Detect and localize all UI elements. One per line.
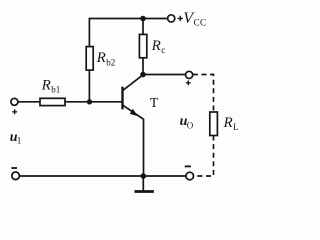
transistor T emitter arrow <box>130 109 138 116</box>
terminal input minus <box>12 172 20 180</box>
node collector supply junction <box>140 16 146 22</box>
polarity minus input <box>11 167 17 169</box>
wire Rb1 to base <box>65 101 122 103</box>
terminal output minus <box>186 172 194 180</box>
resistor Rb1 <box>40 98 65 105</box>
resistor Rc <box>139 34 146 57</box>
node base junction <box>87 99 92 104</box>
ground stub <box>142 176 144 191</box>
wire input to Rb1 <box>18 101 40 103</box>
wire left drop to Rb2 <box>88 18 90 47</box>
svg-text:1: 1 <box>17 135 22 145</box>
svg-text:R: R <box>41 78 51 94</box>
svg-text:R: R <box>151 38 161 54</box>
terminal input plus <box>11 98 18 105</box>
svg-text:R: R <box>223 115 233 131</box>
svg-text:L: L <box>233 122 239 132</box>
svg-text:R: R <box>96 50 106 66</box>
resistor Rb2 <box>86 47 93 71</box>
polarity minus output <box>185 165 191 167</box>
wire Rc bottom to collector node <box>142 58 144 75</box>
wire Vcc rail to Rc <box>142 19 144 35</box>
terminal output plus <box>186 71 193 78</box>
node collector junction <box>140 72 146 78</box>
node emitter ground junction <box>141 173 147 179</box>
wire dashed output to RL top <box>193 75 214 113</box>
terminal +Vcc <box>168 15 175 22</box>
svg-text:b1: b1 <box>51 85 60 95</box>
wire bottom rail <box>19 175 186 177</box>
svg-text:CC: CC <box>194 18 207 28</box>
svg-text:O: O <box>187 121 194 131</box>
transistor T collector lead <box>123 75 143 91</box>
wire Rb2 bottom to base node <box>88 70 90 102</box>
label +Vcc <box>178 16 183 21</box>
wire dashed RL bottom to output minus <box>194 136 214 177</box>
resistor RL <box>210 112 218 136</box>
wire emitter down <box>143 119 145 176</box>
polarity plus input <box>12 109 17 114</box>
transistor T emitter lead <box>123 105 144 119</box>
svg-text:T: T <box>150 96 159 111</box>
svg-text:c: c <box>161 45 165 55</box>
ground bar <box>135 190 154 193</box>
wire collector node to output terminal <box>143 74 186 76</box>
svg-text:b2: b2 <box>106 57 115 67</box>
polarity plus output <box>186 80 191 85</box>
transistor Q T base bar <box>121 87 123 110</box>
wire top rail <box>89 18 167 20</box>
